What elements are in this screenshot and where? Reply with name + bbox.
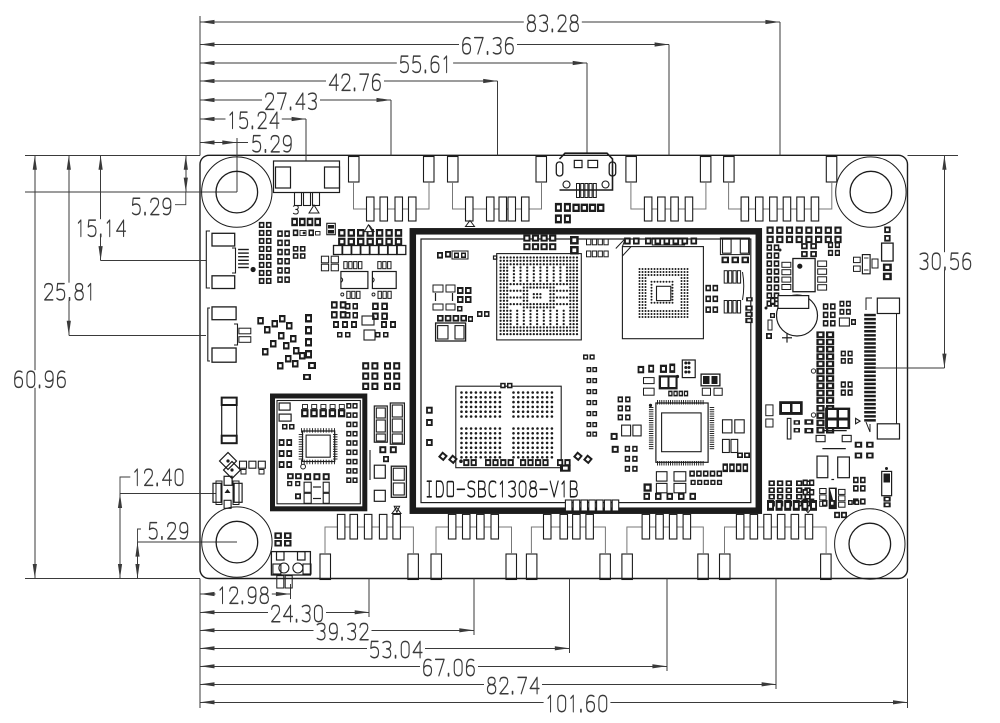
dimension 24.30 [200,605,369,623]
via dot [251,267,256,272]
crystal Y1 [213,476,242,508]
module header field top [523,235,608,257]
connector J11 [720,514,832,579]
pad grid J [384,362,400,390]
module comp W3 [436,323,466,341]
dimension 15.24 [200,111,306,129]
module pad grid right [705,285,718,313]
connector FPC1 [864,298,899,439]
dimension 82.74 [200,677,776,695]
QFN U4 WiFi [299,428,338,469]
dimension 42.76 [200,73,498,91]
pad block C [293,246,306,259]
transistor Q1 SOT [782,259,827,292]
dimension 60.96 [11,155,69,578]
module pad row W2 [437,311,490,322]
connector J5 [724,157,837,222]
comp R4 [854,255,879,274]
PCB board outline [200,155,908,578]
comp BR6 [820,488,845,510]
pads BR7 [853,477,866,505]
comp cluster BR1 [766,401,814,439]
BGA U1 [493,254,581,340]
marker triangle A [365,226,374,232]
connector J8 [431,514,517,579]
pad grid I [362,362,378,390]
module cluster right of QFP [723,420,751,472]
connector J2 [349,157,435,222]
dimension 67.06 [200,659,667,677]
dimension 12.98 [200,586,290,604]
comp cluster between modules 2 [370,450,406,501]
header field R1 [767,227,842,244]
connector J10 [622,514,708,579]
dimension 5.29 left [129,155,188,215]
pin strip R8 [811,331,834,433]
cluster top-left A [291,218,335,236]
header strip A [259,222,272,284]
comp R5 right-edge [882,227,894,281]
connector CN1 left [206,231,235,289]
pad row BB1 [565,500,618,511]
mounting hole top-right [836,157,906,227]
resistor row R1 [240,461,266,474]
dimension 5.29 top [200,135,295,153]
dimension 83.28 [200,14,780,32]
fuse F1 [222,398,237,444]
diode pair D1 [220,453,241,479]
module cluster above QFP [638,360,723,396]
QFP U3 [649,400,714,466]
module pads NW [437,251,468,259]
comp cluster BR2 [822,408,860,431]
header J6 under USB [555,203,605,224]
dimension 39.32 [200,623,474,641]
module right pads [745,297,752,323]
dimension 25.81 [41,155,97,335]
mounting hole bottom-left [202,507,272,577]
module comp W1 [433,285,472,312]
marker triangle D [803,506,814,513]
connector J3 [448,157,547,222]
pad grid R6 [823,303,836,326]
module label text [427,481,577,497]
dimension 5.29 bottom [135,522,191,579]
capacitor C1 electrolytic [766,295,818,343]
small module left grid [279,439,292,468]
mounting hole top-left [202,157,272,227]
comp cluster between modules [374,403,404,462]
pad strip R2 [765,244,782,309]
header strip B [277,230,290,283]
test pad array [456,383,561,468]
dimension 27.43 [200,92,391,110]
connector J9 [526,514,610,579]
SOIC pair [341,262,396,299]
header field D [334,225,406,255]
connector J1 power [274,161,340,214]
comp BR8 [882,467,892,507]
mounting hole bottom-right [835,509,905,579]
pad blocks R3 [801,242,840,257]
pad block E [321,256,338,271]
dimension 30.56 [916,155,974,368]
module top pad row [624,238,697,246]
pads BR11 [822,500,859,507]
module center pad chain [583,354,597,436]
module cluster below QFP [644,471,723,500]
dimension 53.04 [200,641,569,659]
connector CN2 left [208,307,251,362]
cluster H scattered [257,314,375,380]
small module right header [346,403,357,483]
connector USB1 micro-USB [556,153,615,197]
header block bottom-left [274,532,291,546]
module comp C-block [720,238,749,263]
pads BR9 [834,512,847,518]
module cluster pre-QFP [611,396,642,471]
dimension 15.14 [74,155,129,260]
dimension 12.40 [118,468,187,578]
connector J12 bottom-left [271,552,311,588]
module WiFi outline [273,396,365,509]
module IDO-SOM outline [413,231,759,510]
module comp bars [724,271,744,313]
module bottom pads [426,407,593,472]
small module top pads [279,403,345,430]
cluster G [372,303,396,338]
dimension 101.60 [200,695,908,713]
BGA U2 [616,238,704,338]
dimension 55.61 [200,55,587,73]
pad field BR5 [769,480,815,507]
cluster F [331,301,358,337]
pad row BR10 [767,500,817,511]
marker triangle B [466,221,475,227]
pin comb CN1 [238,250,249,268]
marker triangle C [392,508,401,514]
small module bottom pads [287,473,330,503]
comp pair BR4 [817,456,849,479]
dimension 67.36 [200,37,669,55]
connector J7 [320,514,418,579]
marker triangle E [394,506,399,512]
connector J4 [626,157,711,222]
pads R7 [839,301,856,326]
comp cluster BR3 [816,435,874,458]
pad blocks R9 [841,351,853,396]
